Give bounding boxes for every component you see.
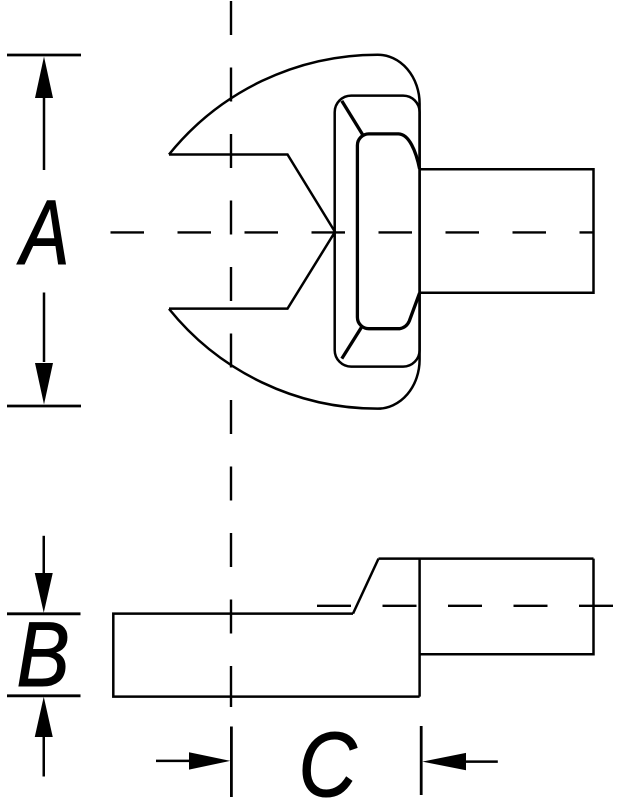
B top tick <box>7 612 81 615</box>
A top tick <box>7 54 81 57</box>
dimension B <box>7 536 81 777</box>
inner drive profile <box>357 134 419 329</box>
A top arrow <box>43 98 46 170</box>
dimension C <box>156 726 498 797</box>
lower jaw face <box>169 232 335 309</box>
svg-text:A: A <box>16 181 69 284</box>
boss outer rounded square <box>335 96 420 367</box>
B top arrow <box>43 536 46 575</box>
A bottom arrow <box>43 293 46 363</box>
shank top view <box>420 169 594 293</box>
C right arrow <box>465 760 498 763</box>
C left extension line <box>230 727 233 798</box>
vertical centerline <box>230 1 232 707</box>
bottom view: head/shank boundary <box>418 559 421 697</box>
upper jaw face <box>169 155 335 232</box>
svg-text:C: C <box>299 714 358 800</box>
bottom view: top edge <box>379 557 594 560</box>
bottom view: neck diagonal <box>353 559 379 614</box>
outer wrench head profile <box>169 55 420 409</box>
svg-text:B: B <box>17 604 70 707</box>
horizontal centerline bottom view <box>317 605 619 607</box>
bottom view: shank right + bottom <box>420 559 594 655</box>
bottom view: jaw bar <box>113 614 419 697</box>
C left arrow <box>156 760 190 763</box>
chamfer top-left <box>342 101 363 135</box>
C right extension line <box>420 726 423 795</box>
B bottom tick <box>7 694 81 697</box>
chamfer bottom-left <box>342 327 362 358</box>
horizontal centerline top view <box>111 231 594 233</box>
A bottom tick <box>7 405 81 408</box>
dimension A <box>7 55 81 406</box>
B bottom arrow <box>43 735 46 777</box>
